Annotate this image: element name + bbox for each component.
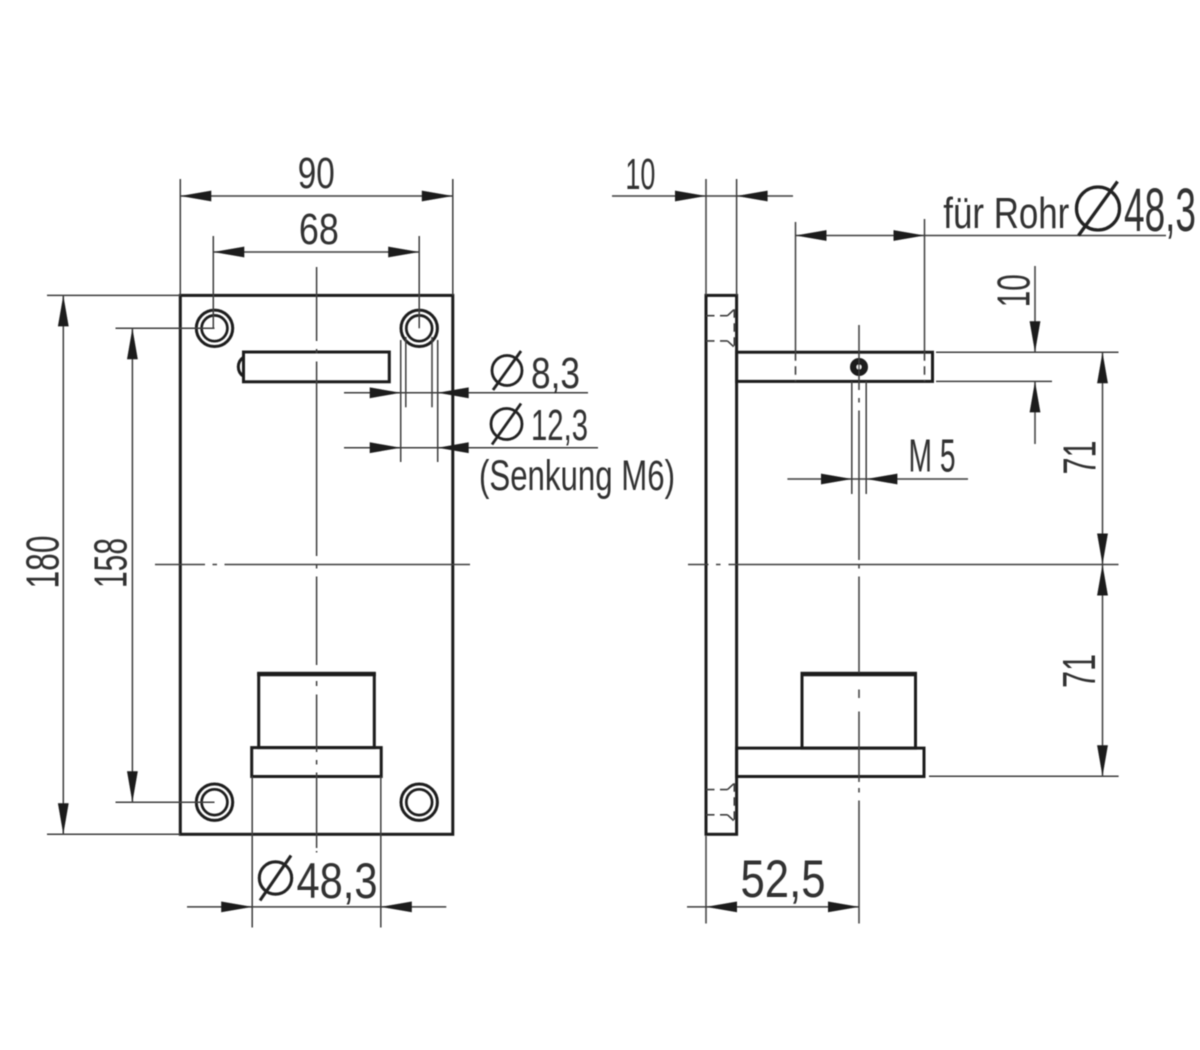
svg-text:90: 90 [298,149,335,198]
svg-text:71: 71 [1053,654,1105,688]
svg-text:71: 71 [1054,441,1106,475]
svg-text:(Senkung M6): (Senkung M6) [479,452,675,500]
svg-text:M 5: M 5 [909,429,956,481]
svg-text:48,3: 48,3 [1124,176,1196,244]
svg-text:für Rohr: für Rohr [943,189,1069,238]
svg-text:52,5: 52,5 [741,850,826,909]
svg-text:12,3: 12,3 [531,401,588,450]
svg-text:158: 158 [85,538,137,588]
svg-text:48,3: 48,3 [297,853,378,909]
svg-text:10: 10 [625,150,655,199]
svg-text:10: 10 [988,274,1040,307]
svg-text:8,3: 8,3 [531,349,580,398]
svg-text:180: 180 [17,536,69,589]
svg-text:68: 68 [299,205,339,254]
